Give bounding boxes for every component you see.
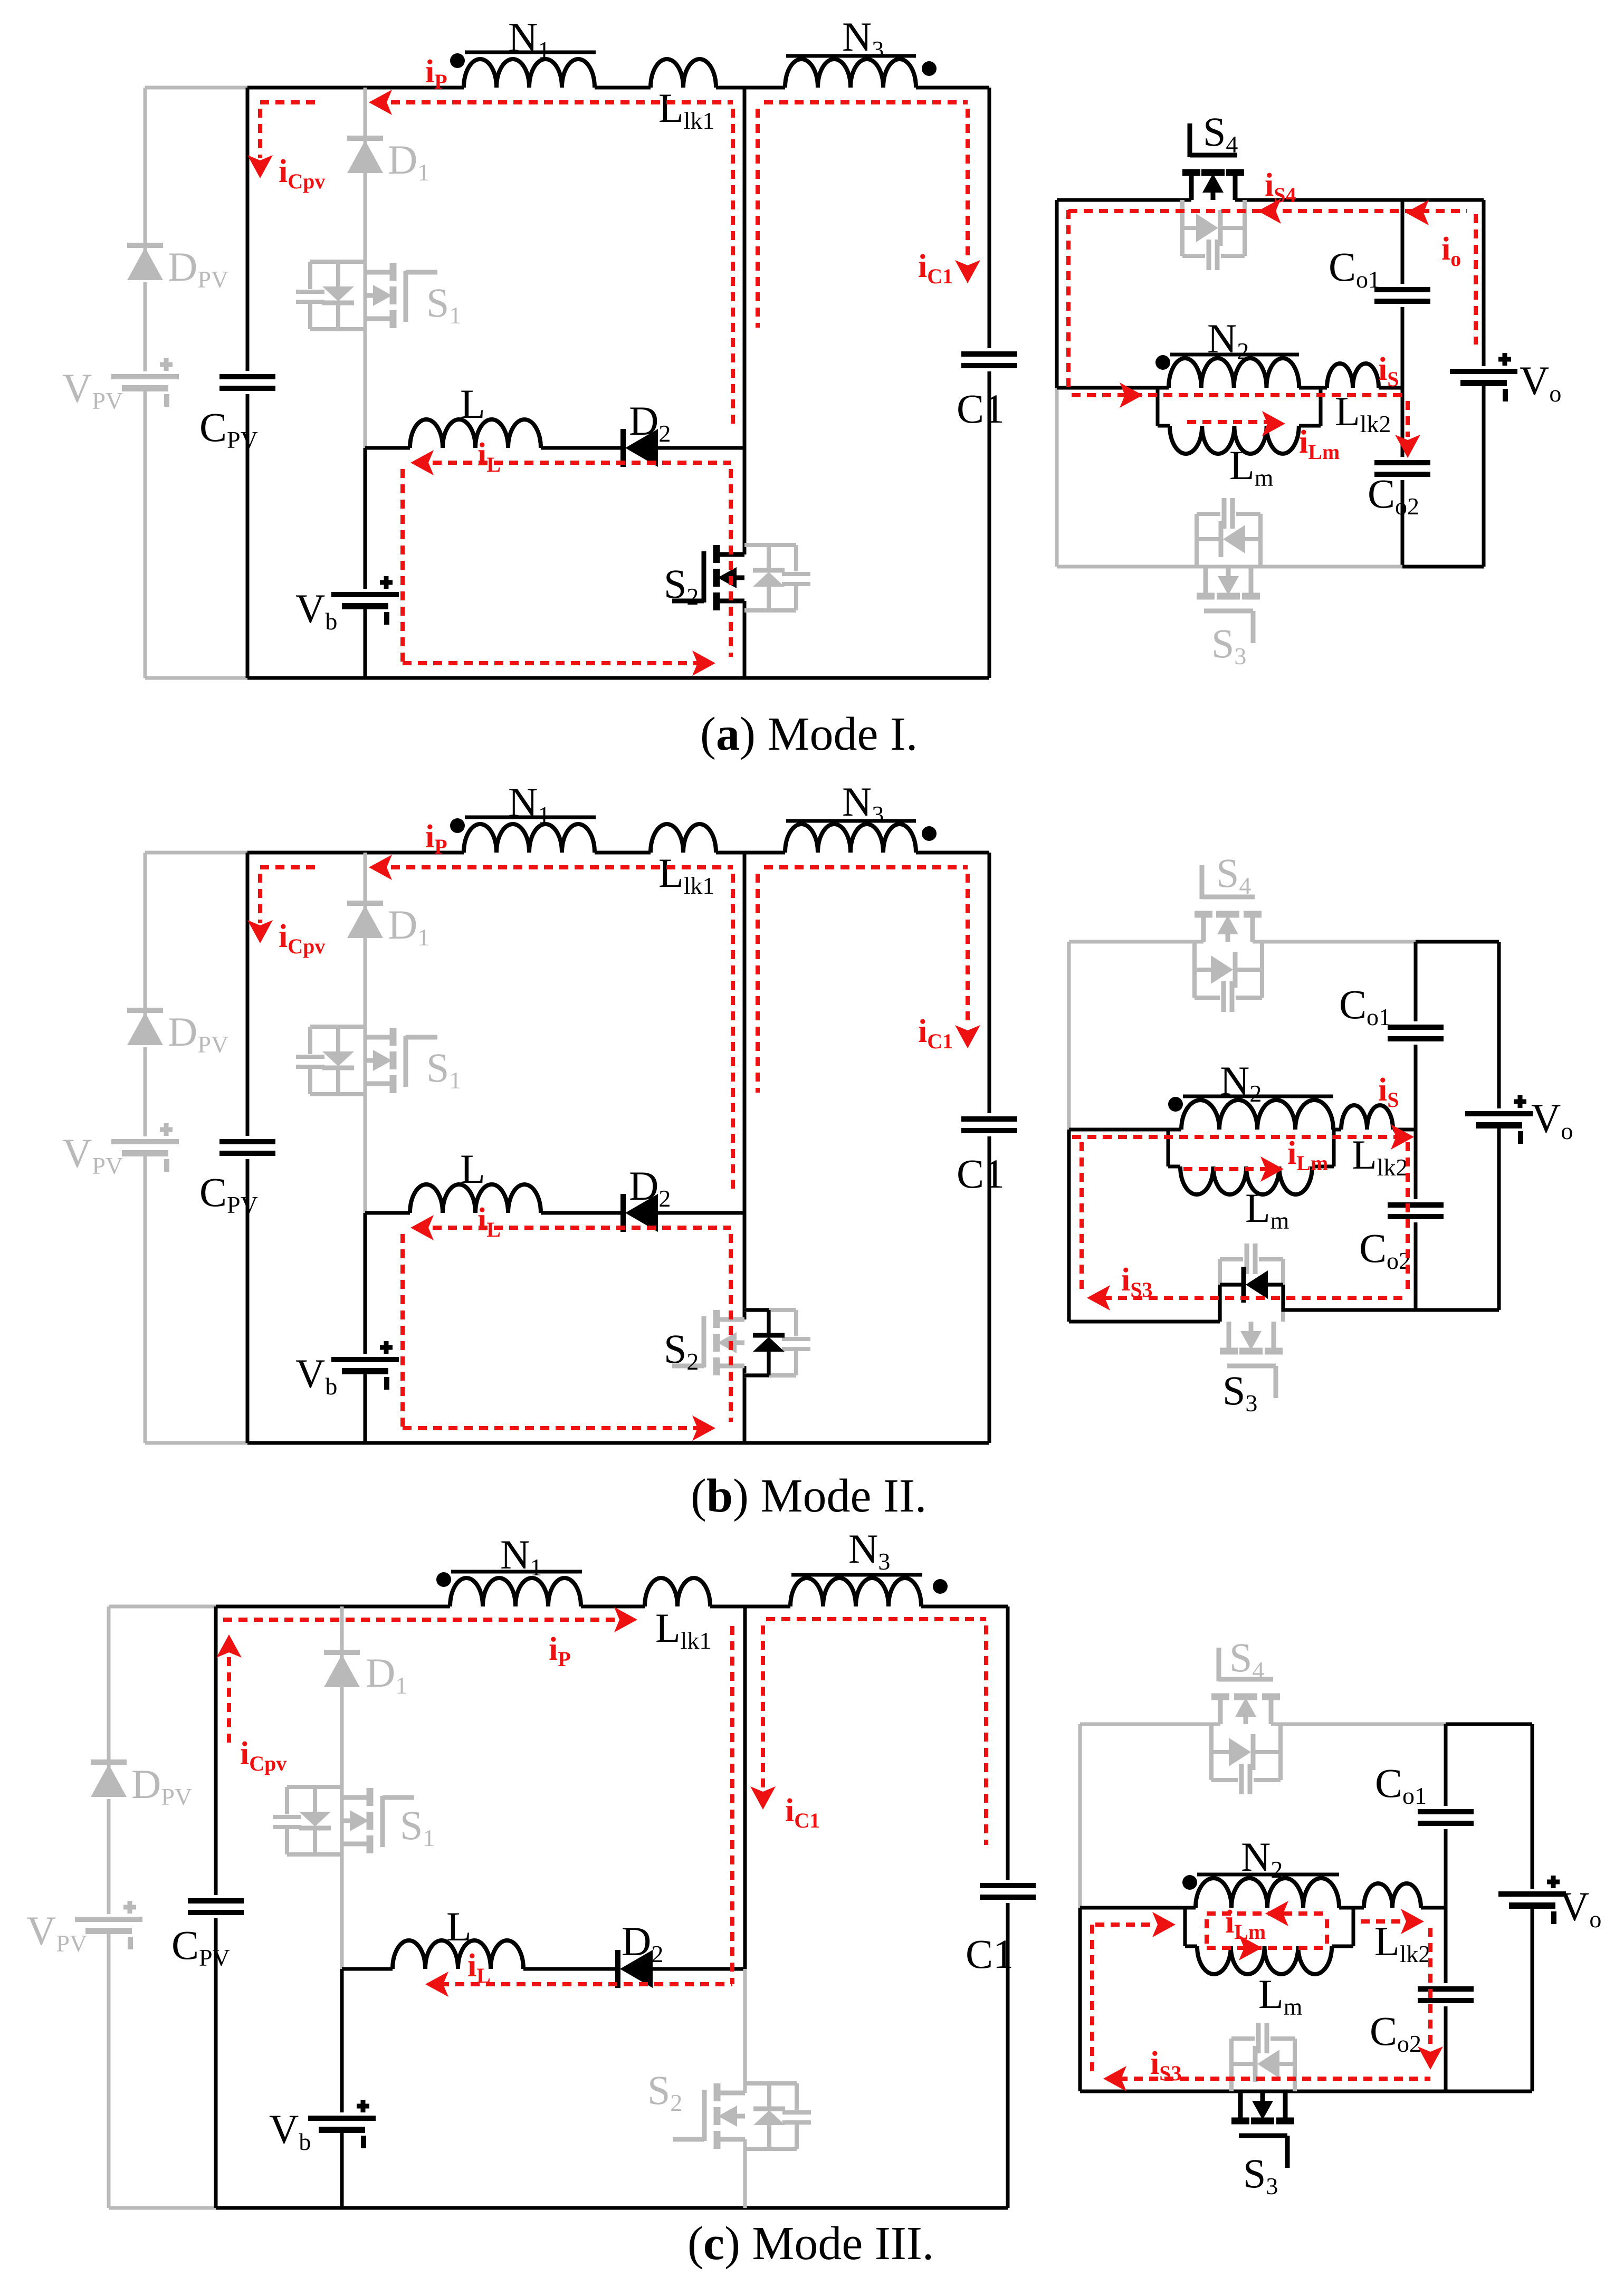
wire left vertical (c): [214, 1606, 218, 1895]
current iS4 arrow (a): [1258, 198, 1281, 224]
current ip dashed (c): [223, 1618, 618, 1622]
current iC1 dashed (b): [764, 865, 968, 869]
wire sub top-left (b): [1069, 940, 1203, 944]
wire sub bottom right (c): [1446, 2090, 1532, 2093]
wire sub bottom left (b): [1069, 1320, 1220, 1324]
wire sub top-right (b): [1253, 940, 1416, 944]
current iL right leg (b): [729, 1234, 733, 1422]
current iCpv dashed (c): [227, 1642, 231, 1747]
inductor Lm (b): [1180, 1166, 1312, 1194]
transistor S2 (a): [713, 545, 720, 563]
inductor Llk2 (c): [1364, 1883, 1421, 1908]
current iS arrow entry (a): [1120, 382, 1143, 408]
current ip dashed (b): [260, 865, 317, 869]
winding N3 (c): [790, 1578, 921, 1606]
battery Vo (c): [1498, 1891, 1566, 1897]
core bar N1 (a): [465, 51, 596, 54]
diode D1 (a): [347, 136, 383, 141]
svg-text:(c) Mode III.: (c) Mode III.: [687, 2217, 934, 2270]
core bar N2 (b): [1183, 1095, 1333, 1098]
wire junction vertical (c): [743, 1606, 747, 1969]
core bar N3 (a): [786, 54, 916, 58]
wire sub bottom right (a): [1402, 565, 1484, 569]
current iS3 arrow (c): [1103, 2066, 1126, 2091]
current ip vertical leg (b): [731, 874, 735, 1193]
battery Vb (c): [308, 2116, 376, 2121]
current iC1 return leg (c): [984, 1625, 988, 1845]
current iC1 dashed (c): [766, 1617, 986, 1621]
wire right vertical (b): [988, 853, 991, 1113]
current iL bottom arrow (b): [692, 1415, 715, 1441]
diode D2 (a): [620, 429, 626, 467]
node dot N2 (a): [1155, 355, 1170, 370]
svg-text:L: L: [460, 1146, 485, 1192]
transistor S2 (c): [714, 2083, 721, 2101]
wire left vertical (b): [246, 853, 250, 1136]
wire N2 to Llk2 (c): [1339, 1906, 1364, 1910]
wire Vo vertical (c): [1531, 1724, 1534, 1889]
capacitor C1 (c): [980, 1883, 1036, 1888]
current iS3 arrow (b): [1087, 1285, 1110, 1311]
wire sub top-left (c): [1080, 1723, 1220, 1726]
wire D2-junction (c): [653, 1967, 745, 1971]
current iLm arrow (a): [1262, 411, 1285, 436]
current iC1 return leg (b): [756, 874, 760, 1093]
current iL dashed (c): [440, 1982, 732, 1986]
battery Vo (b): [1465, 1111, 1533, 1116]
wire top segment 3 (b): [716, 851, 785, 855]
wire L segment (b): [365, 1211, 410, 1215]
wire sub left vertical upper (c): [1078, 1724, 1082, 1908]
capacitor Co1 (b): [1388, 1025, 1444, 1030]
wire top segment 2 (c): [581, 1605, 645, 1609]
capacitor Co2 (a): [1374, 460, 1430, 465]
wire D2-junction (a): [658, 446, 744, 450]
wire L-D2 (a): [541, 446, 623, 450]
current iLm loop top (c): [1207, 1911, 1327, 1916]
wire top segment 1 (a): [247, 86, 464, 90]
transistor S4 (b): [1195, 911, 1212, 918]
battery Vb (a): [331, 592, 399, 597]
inductor Llk2 (b): [1341, 1105, 1393, 1130]
current iLm arrow down-side (c): [1239, 1935, 1262, 1960]
wire Vb-branch (a): [364, 448, 367, 589]
inductor L (b): [410, 1184, 541, 1213]
inductor Lm (a): [1170, 426, 1299, 454]
current iC1 arrow (a): [955, 260, 980, 283]
wire top segment 4 (b): [916, 851, 989, 855]
current iL right leg (a): [729, 469, 733, 657]
current iS arrow (c): [1401, 1909, 1424, 1934]
current iL bottom arrow (a): [692, 651, 715, 676]
diode DPV (a): [127, 243, 163, 248]
node dot N3 (a): [922, 61, 937, 76]
capacitor Co1 (c): [1418, 1809, 1474, 1814]
transistor S1 (a): [390, 263, 397, 281]
transistor S4 (a): [1182, 169, 1200, 176]
current ip arrow (a): [369, 90, 392, 115]
current iL dashed top (a): [417, 461, 731, 465]
current iC1 dashed (a): [764, 100, 968, 104]
wire sub bottom right (b): [1416, 1308, 1499, 1312]
current iL bottom leg (a): [403, 661, 702, 665]
wire N2 to Llk2 (b): [1333, 1128, 1341, 1132]
battery VPV (c): [75, 1917, 142, 1922]
current iLm arrow (b): [1260, 1156, 1284, 1182]
diode D2 (c): [615, 1950, 620, 1988]
capacitor CPV (b): [219, 1139, 275, 1144]
current ip arrow (b): [369, 855, 392, 880]
wire top segment 4 (a): [916, 86, 989, 90]
inductor L (a): [410, 419, 541, 448]
wire inner vertical (c): [1444, 1724, 1448, 1806]
wire L segment (c): [342, 1967, 393, 1971]
core bar N3 (b): [786, 819, 916, 823]
diode DPV (b): [127, 1008, 163, 1013]
wire S3 diode level (b): [1220, 1283, 1244, 1287]
wire sub left vertical upper (a): [1055, 200, 1059, 388]
transistor S1 (c): [367, 1788, 374, 1806]
wire Lm right stub (c): [1332, 1945, 1353, 1948]
wire right vertical (c): [1006, 1606, 1010, 1880]
current iS right leg (b): [1406, 1142, 1410, 1295]
wire bottom (c): [216, 2206, 1008, 2210]
inductor Llk2 (a): [1327, 364, 1379, 388]
node dot N3 (b): [922, 826, 937, 841]
capacitor CPV (a): [219, 374, 275, 379]
wire top segment 2 (a): [595, 86, 651, 90]
current iS3 dashed (c): [1119, 2077, 1430, 2081]
transistor S3 (a): [1197, 593, 1215, 600]
core bar N2 (a): [1170, 353, 1299, 357]
capacitor C1 (b): [961, 1116, 1017, 1122]
current ip vertical leg (c): [730, 1626, 734, 1984]
wire left vertical (a): [246, 88, 250, 371]
current iS4 dashed (a): [1066, 210, 1071, 391]
wire PV-branch vertical (a): [144, 88, 147, 260]
wire inner vertical (a): [1401, 200, 1405, 284]
transistor S1 (b): [390, 1028, 397, 1046]
svg-text:C1: C1: [966, 1931, 1014, 1977]
wire D1-branch (c): [340, 1606, 344, 1969]
wire N2 row left (c): [1080, 1906, 1196, 1910]
diode DPV (c): [91, 1759, 127, 1765]
current iL arrow (c): [425, 1972, 448, 1997]
transistor S3 (c): [1231, 2118, 1249, 2125]
wire top segment 2 (b): [595, 851, 651, 855]
wire bottom (a): [247, 676, 989, 680]
current iS dashed (b): [1072, 1135, 1397, 1139]
battery Vb (b): [331, 1357, 399, 1362]
core bar N1 (b): [465, 816, 596, 819]
wire sub top to Vo (b): [1416, 940, 1499, 944]
wire right vertical (a): [988, 88, 991, 348]
wire Vo vertical (b): [1497, 942, 1501, 1108]
wire PV-branch bottom (b): [145, 1441, 247, 1445]
wire S2 drain (b): [743, 1213, 747, 1319]
wire Llk2 to inner (b): [1393, 1128, 1416, 1132]
current iCpv arrow (b): [247, 920, 273, 943]
node dot N1 (b): [450, 818, 465, 833]
winding N2 (c): [1196, 1878, 1339, 1908]
node dot N1 (a): [450, 53, 465, 68]
current iCpv dashed (b): [258, 874, 262, 923]
current iLm dashed (a): [1187, 420, 1268, 424]
current iS down arrow (c): [1418, 2046, 1443, 2070]
wire N2 to Llk2 (a): [1299, 386, 1327, 390]
wire top segment 1 (c): [216, 1605, 450, 1609]
current iLm arrow up-side (c): [1265, 1901, 1288, 1926]
svg-text:C1: C1: [957, 1151, 1005, 1197]
wire sub left vertical lower (a): [1055, 388, 1059, 567]
current iL left leg (b): [400, 1234, 405, 1428]
current ip arrow (c): [614, 1607, 637, 1632]
wire PV-branch vertical (b): [144, 853, 147, 1025]
diode D1 (b): [347, 901, 383, 906]
wire D1-branch (b): [364, 853, 367, 1213]
wire PV-branch top (c): [109, 1605, 216, 1609]
current iC1 arrow (b): [955, 1025, 980, 1048]
current iS arrow (b): [1391, 1124, 1414, 1150]
core bar N2 (c): [1197, 1873, 1339, 1877]
wire sub left vertical lower (c): [1078, 1908, 1082, 2091]
wire S2 drain (c): [743, 1969, 747, 2093]
inductor L (c): [393, 1940, 523, 1969]
wire Lm right stub (b): [1312, 1165, 1334, 1169]
current iL arrow (b): [410, 1215, 434, 1240]
current iS entry dashed (c): [1095, 1922, 1157, 1927]
wire PV-branch vertical (c): [107, 1606, 111, 1777]
wire L-D2 (c): [523, 1967, 618, 1971]
wire Lm left stub (b): [1167, 1130, 1170, 1166]
capacitor Co2 (c): [1418, 1986, 1474, 1992]
svg-text:C1: C1: [957, 386, 1005, 432]
wire L segment (a): [365, 446, 410, 450]
transistor S3 (b): [1220, 1348, 1238, 1355]
current iS3 left leg (b): [1080, 1142, 1084, 1293]
node dot N2 (c): [1182, 1875, 1197, 1890]
current iS arrow into Co2 (a): [1395, 435, 1420, 458]
battery VPV (b): [111, 1139, 179, 1144]
wire Vb-branch (c): [340, 1969, 344, 2112]
wire top segment 3 (c): [710, 1605, 790, 1609]
diode D2 (b): [620, 1194, 626, 1232]
current iL dashed top (b): [417, 1226, 731, 1230]
current ip vertical leg (a): [731, 109, 735, 428]
wire top segment 3 (a): [716, 86, 785, 90]
current iC1 return leg (a): [756, 109, 760, 328]
wire sub top to Vo (c): [1446, 1723, 1532, 1726]
winding N3 (b): [785, 824, 916, 853]
current iS dashed (c): [1361, 1919, 1405, 1924]
inductor Llk1 (a): [651, 59, 716, 88]
current iS3 dashed (b): [1103, 1296, 1408, 1300]
core bar N3 (c): [791, 1573, 922, 1577]
wire sub top-right (a): [1235, 198, 1402, 202]
current iLm dashed (b): [1183, 1167, 1266, 1171]
current iS right leg (c): [1428, 1928, 1432, 2047]
wire sub bottom (c): [1080, 2090, 1446, 2093]
wire PV-branch bottom (a): [145, 676, 247, 680]
wire Llk2 to inner (a): [1379, 386, 1402, 390]
wire sub top-right (c): [1271, 1723, 1446, 1726]
wire sub left vertical lower (b): [1067, 1130, 1071, 1322]
wire Lm left stub (c): [1183, 1908, 1187, 1946]
inductor Llk1 (b): [651, 824, 716, 853]
winding N1 (b): [464, 824, 595, 853]
wire N2 row left (b): [1069, 1128, 1181, 1132]
wire PV-branch top (a): [145, 86, 247, 90]
wire PV-branch top (b): [145, 851, 247, 855]
wire sub top-left (a): [1057, 198, 1191, 202]
diode D1 (c): [324, 1650, 360, 1655]
wire Vb-branch (b): [364, 1213, 367, 1354]
node dot N3 (c): [933, 1579, 948, 1594]
capacitor Co1 (a): [1374, 287, 1430, 292]
winding N3 (a): [785, 59, 916, 88]
wire S2 source (b): [743, 1366, 747, 1443]
inductor Llk1 (c): [645, 1578, 710, 1606]
wire sub bottom (a): [1057, 565, 1402, 569]
current iS entry arrow (c): [1152, 1912, 1176, 1937]
winding N1 (a): [464, 59, 595, 88]
svg-text:L: L: [460, 381, 485, 427]
winding N2 (a): [1169, 358, 1299, 388]
capacitor CPV (c): [188, 1898, 244, 1904]
wire S2 source (a): [743, 601, 747, 678]
wire S2 body-diode path (b): [744, 1308, 769, 1312]
wire S2 source (c): [743, 2139, 747, 2208]
current iL left leg (a): [400, 469, 405, 663]
inductor Lm (c): [1197, 1946, 1332, 1974]
current ip dashed (a): [260, 100, 317, 104]
winding N1 (c): [450, 1578, 581, 1606]
wire sub left vertical upper (b): [1067, 942, 1071, 1130]
current iC1 arrow (c): [750, 1786, 776, 1810]
wire bottom (b): [247, 1441, 989, 1445]
wire N2 row left (a): [1057, 386, 1169, 390]
wire S2 drain (a): [743, 448, 747, 554]
capacitor C1 (a): [961, 351, 1017, 357]
current iS dashed (a): [1072, 393, 1408, 397]
node dot N1 (c): [436, 1572, 451, 1587]
current io arrow (a): [1406, 200, 1429, 225]
current iCpv arrow (a): [247, 155, 273, 178]
capacitor Co2 (b): [1388, 1202, 1444, 1208]
current iCpv arrow (c): [216, 1634, 242, 1658]
svg-text:L: L: [446, 1904, 472, 1949]
wire top segment 4 (c): [921, 1605, 1008, 1609]
battery VPV (a): [111, 374, 179, 379]
transistor S4 (c): [1211, 1694, 1229, 1700]
wire L-D2 (b): [541, 1211, 623, 1215]
wire sub top to Vo (a): [1402, 198, 1484, 202]
transistor S2 (b): [713, 1310, 720, 1328]
current iS3 left leg (c): [1090, 1925, 1094, 2073]
core bar N1 (c): [451, 1570, 582, 1574]
wire junction vertical (b): [743, 853, 747, 1213]
wire Vo vertical (a): [1482, 200, 1486, 366]
wire inner vertical (b): [1414, 942, 1418, 1021]
node dot N2 (b): [1168, 1097, 1183, 1112]
svg-text:(b) Mode II.: (b) Mode II.: [691, 1470, 926, 1522]
current iL bottom leg (b): [403, 1426, 702, 1430]
wire D2-junction (b): [658, 1211, 744, 1215]
wire top segment 1 (b): [247, 851, 464, 855]
wire PV-branch bottom (c): [109, 2206, 216, 2210]
wire S3 diode jog (b): [1218, 1285, 1222, 1322]
svg-text:(a) Mode I.: (a) Mode I.: [700, 708, 918, 760]
wire Llk2 to inner (c): [1421, 1906, 1446, 1910]
wire Lm right stub (a): [1299, 424, 1321, 428]
current iL arrow (a): [410, 450, 434, 475]
wire junction vertical (a): [743, 88, 747, 448]
winding N2 (b): [1181, 1100, 1333, 1130]
battery Vo (a): [1450, 369, 1517, 374]
wire Lm left stub (a): [1156, 388, 1160, 426]
current iCpv dashed (a): [258, 109, 262, 158]
current io dashed (a): [1474, 214, 1478, 345]
wire D1-branch (a): [364, 88, 367, 448]
